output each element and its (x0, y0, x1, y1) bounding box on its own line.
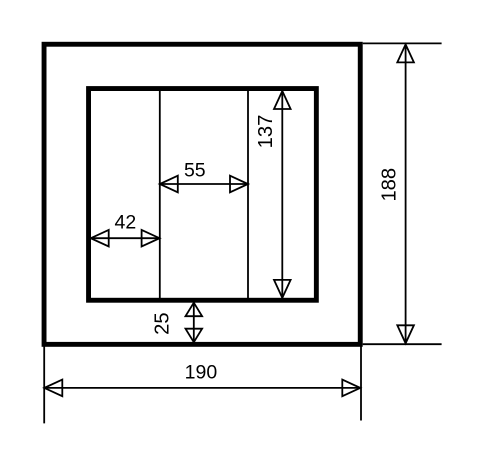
svg-text:137: 137 (255, 115, 277, 149)
dimension 137 line (281, 91, 283, 298)
dimension 55 line (160, 183, 248, 185)
partition line right (247, 91, 249, 299)
svg-text:25: 25 (152, 312, 174, 334)
inner square (89, 89, 317, 301)
svg-text:55: 55 (184, 159, 206, 181)
dimension 42 right arrow (142, 230, 160, 247)
svg-text:190: 190 (185, 361, 218, 383)
dimension 190 left arrow (44, 380, 62, 397)
dimension 190 line (44, 387, 360, 389)
svg-text:188: 188 (379, 168, 401, 202)
dimension 188 top extension line (363, 42, 442, 44)
dimension 188 line (405, 44, 407, 343)
dimension 188 bottom extension line (363, 343, 442, 345)
dimension 188 top arrow (397, 44, 414, 62)
dimension 137 bottom arrow (274, 280, 291, 298)
dimension 42 line (91, 237, 160, 239)
svg-text:42: 42 (115, 211, 137, 233)
partition line left (159, 91, 161, 299)
dimension 190 left extension line (43, 346, 45, 423)
dimension 25 line (193, 303, 195, 343)
dimension 42 left arrow (91, 230, 109, 247)
dimension 25 up arrow (186, 303, 203, 317)
dimension 55 right arrow (230, 176, 248, 193)
dimension 137 top arrow (274, 91, 291, 109)
outer square (44, 44, 360, 344)
dimension 25 down arrow (186, 329, 203, 343)
dimension 190 right arrow (342, 380, 360, 397)
dimension 188 bottom arrow (397, 325, 414, 343)
dimension 55 left arrow (160, 176, 178, 193)
dimension 190 right extension line (360, 346, 362, 421)
